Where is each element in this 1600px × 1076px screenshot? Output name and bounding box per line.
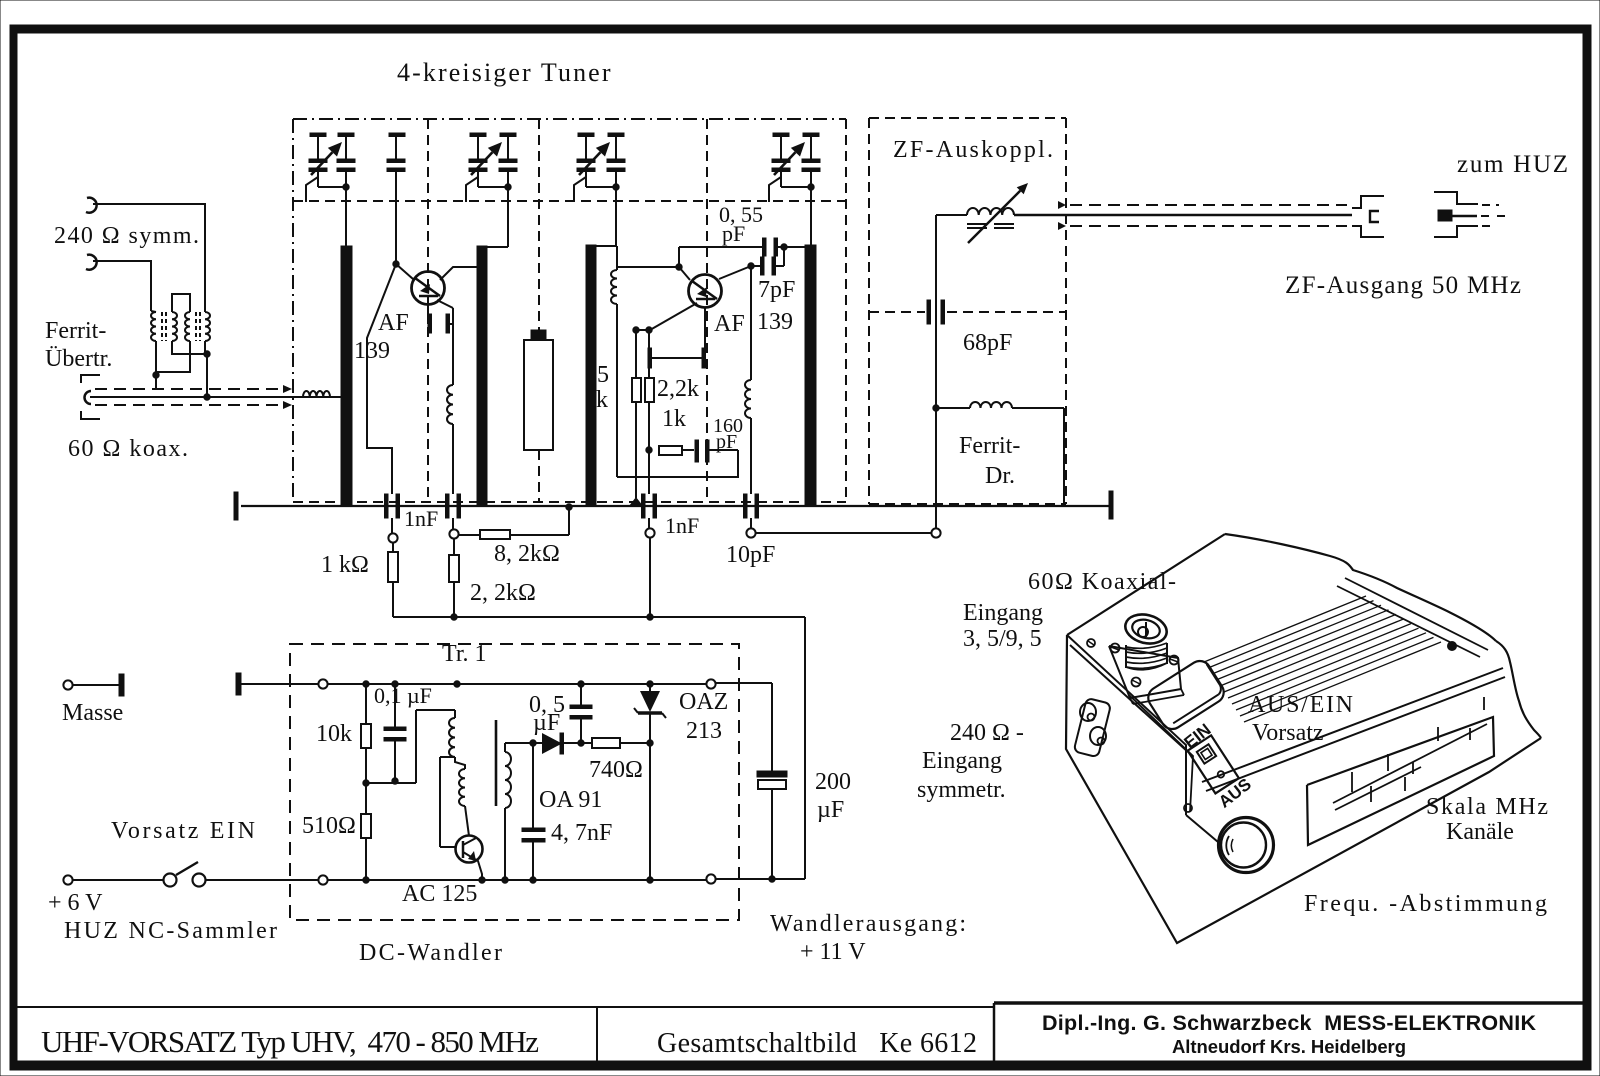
label 60 Ohm koax. [68,436,188,462]
svg-text:AC 125: AC 125 [402,881,477,907]
label ZF-Ausgang 50 MHz [1285,272,1521,299]
svg-text:Skala MHz: Skala MHz [1426,794,1548,820]
resistor 2,2 kOhm [449,539,459,617]
label 1k [662,406,686,432]
label 10pF [726,542,775,568]
label 68pF [963,330,1012,356]
svg-text:2,2k: 2,2k [657,376,699,402]
feedthrough capacitor 68 pF [869,300,1066,324]
terminal base bias [388,518,397,543]
svg-text:Vorsatz: Vorsatz [1252,720,1324,746]
resonator line 3 [586,245,596,506]
resonator line 4 [805,245,816,506]
svg-text:µF: µF [533,710,560,736]
svg-text:0,1 µF: 0,1 µF [374,683,432,708]
capacitor emitter Q2 [648,348,706,368]
svg-text:Ferrit-: Ferrit- [45,318,106,344]
terminal AGC [645,518,654,617]
svg-text:ZF-Ausgang 50 MHz: ZF-Ausgang 50 MHz [1285,272,1521,299]
wire [810,187,812,245]
title block [17,1003,1583,1061]
trimmer capacitor group 3 [574,133,625,202]
svg-text:139: 139 [757,309,793,335]
svg-text:Frequ. -Abstimmung: Frequ. -Abstimmung [1304,891,1547,917]
svg-text:5: 5 [597,362,609,388]
label DC-Wandler [359,940,502,966]
transformer Ferrit-Uebertr. [151,294,210,400]
label 0,5 uF [529,692,565,736]
connector 240 ohm input b [86,255,97,270]
feedthrough capacitor 1nF b [446,494,461,518]
terminal rail right [706,679,715,688]
svg-text:+ 11 V: + 11 V [800,939,866,965]
svg-text:1nF: 1nF [404,506,438,531]
node collector Q2 [748,263,754,269]
capacitor 0,55 pF [763,238,806,256]
resistor 10k [361,684,371,786]
wire [93,204,205,311]
capacitor emitter bypass Q1 [428,304,453,333]
label 5k [596,362,609,413]
label 240 Ohm symm. [54,223,199,249]
tuner partition dashed vertical 3 [706,119,708,502]
svg-text:AF: AF [714,311,745,337]
hatch streaks on lid [1204,596,1441,722]
svg-text:10k: 10k [316,721,352,747]
device pictorial drawing [1066,534,1541,943]
label 160 pF [713,415,743,453]
svg-text:Altneudorf Krs. Heidelberg: Altneudorf Krs. Heidelberg [1172,1036,1406,1057]
label 10k [316,721,352,747]
svg-text:240 Ω -: 240 Ω - [950,720,1024,746]
wire [345,187,347,246]
diode OA 91 [505,733,592,754]
feedthrough capacitor 1nF a [385,494,400,518]
svg-text:139: 139 [354,338,390,364]
wire top rail [328,681,706,687]
resistor 1k Q2 [645,330,654,494]
svg-text:Übertr.: Übertr. [45,346,112,372]
resistor 8,2 kOhm [459,504,572,539]
label 510 Ohm [302,813,356,839]
label zum HUZ [1457,151,1568,178]
label OAZ 213 [679,689,728,744]
ZF-Auskoppl shield box dashed [869,118,1066,504]
svg-text:2, 2kΩ: 2, 2kΩ [470,580,536,606]
wire [596,187,617,270]
label 7 pF [758,277,795,303]
scale window on device [1307,697,1494,845]
label 0,1 uF [374,683,432,708]
svg-text:k: k [596,387,608,413]
ground tick Q2 bias [629,497,643,506]
label 8,2 kOhm [494,541,560,567]
svg-text:4, 7nF: 4, 7nF [551,820,612,846]
label Ferrit-Dr. [959,433,1020,489]
svg-text:Eingang: Eingang [963,600,1043,626]
label 60 Ohm Koaxial- [1028,569,1176,595]
ground bus line [241,505,1113,507]
title text manufacturer [1042,1011,1536,1057]
terminal ZF box bottom [756,528,941,537]
ZF output line [1014,201,1352,230]
tuner partition dashed vertical 1 [427,119,429,502]
transformer Tr1 secondary [505,743,511,880]
svg-text:Dr.: Dr. [985,463,1015,489]
terminal +6V [63,875,163,884]
inductor collector choke Q2 [745,380,751,494]
connector 60 ohm koax input [81,375,100,419]
wire collector Q2 [719,266,751,380]
label 0,55 pF [719,202,763,246]
svg-text:200: 200 [815,769,851,795]
svg-text:1 kΩ: 1 kΩ [321,552,369,578]
svg-text:1nF: 1nF [665,513,699,538]
terminal emitter line [449,518,458,539]
svg-text:8, 2kΩ: 8, 2kΩ [494,541,560,567]
terminal Masse [63,674,124,696]
connector zum HUZ socket [1434,192,1507,237]
terminal rail left [318,679,327,688]
svg-text:240 Ω symm.: 240 Ω symm. [54,223,199,249]
ground tick supply rail [236,673,318,695]
label +6V [48,890,103,916]
capacitor fixed tuning 1 [387,133,405,264]
svg-text:213: 213 [686,718,722,744]
svg-text:3, 5/9, 5: 3, 5/9, 5 [963,626,1042,652]
capacitor 4,7 nF [522,743,545,880]
label 1nF c [665,513,699,538]
screw top left on device [1087,639,1095,647]
label Frequ.-Abstimmung [1304,891,1547,917]
label Vorsatz EIN [111,818,255,844]
label AC 125 [402,881,477,907]
transformer Tr1 core [495,720,498,806]
label OA 91 [539,787,602,813]
svg-text:symmetr.: symmetr. [917,777,1006,803]
wire base AC125 [440,757,456,847]
svg-text:UHF-VORSATZ Typ UHV, 470 - 85: UHF-VORSATZ Typ UHV, 470 - 850 MHz [41,1024,539,1059]
trimmer capacitor group 1 [306,133,355,202]
inductor emitter choke Q1 [447,385,453,494]
svg-text:4-kreisiger Tuner: 4-kreisiger Tuner [397,58,612,87]
wire bottom rail outside [716,876,805,882]
tuner partition dashed horizontal [293,200,846,202]
ground tick left [234,492,238,520]
cover plate on device [1144,657,1228,733]
wire [487,187,508,247]
svg-text:µF: µF [817,797,844,823]
resistor 510 Ohm [361,783,371,880]
svg-text:60Ω Koaxial-: 60Ω Koaxial- [1028,569,1176,595]
label Eingang 2 [922,748,1002,774]
wire converter output feed [804,617,806,879]
svg-text:pF: pF [716,431,737,453]
label 2,2 kOhm [470,580,536,606]
wire neutralization [679,247,762,267]
label symmetr. [917,777,1006,803]
svg-text:Ferrit-: Ferrit- [959,433,1020,459]
wire collector Q1 to line 2 [440,267,477,280]
svg-text:1k: 1k [662,406,686,432]
DC-Wandler box dashed [290,644,739,920]
dot on device lid [1448,642,1457,651]
resistor 2,2k Q2 [632,330,641,498]
feedthrough capacitor 10 pF [744,494,759,518]
input plate on device left face [1074,698,1112,757]
svg-text:ZF-Auskoppl.: ZF-Auskoppl. [893,137,1053,163]
svg-text:Tr. 1: Tr. 1 [442,641,486,667]
capacitor 160 pF [695,440,738,462]
label 200 uF [815,769,851,823]
svg-text:Kanäle: Kanäle [1446,819,1514,845]
label Skala MHz [1426,794,1548,820]
label 3,5/9,5 [963,626,1042,652]
svg-text:+ 6 V: + 6 V [48,890,103,916]
wire base bias Q1 [367,264,396,494]
switch EIN AUS on device [1188,735,1239,793]
label Ferrit-Uebertr. [45,318,112,372]
capacitor 0,1 uF [384,684,406,784]
svg-text:Wandlerausgang:: Wandlerausgang: [770,911,966,937]
svg-text:AUS/EIN: AUS/EIN [1248,692,1353,718]
capacitor 200 uF [716,683,787,879]
svg-text:Eingang: Eingang [922,748,1002,774]
label AUS on device [1215,775,1255,812]
label AF 139 Q2 [714,309,793,337]
label 1 kOhm [321,552,369,578]
transistor Q1 AF 139 [396,264,445,305]
wire emitter Q2 [633,303,705,348]
svg-text:AF: AF [378,310,409,336]
svg-text:OA 91: OA 91 [539,787,602,813]
svg-text:pF: pF [722,221,745,246]
tuner shield box dashed [293,119,846,502]
trimmer capacitor group 2 [466,133,517,202]
resonator line 2 [477,246,487,506]
label 740 Ohm [589,757,643,783]
tuner partition dashed vertical 2 [538,119,540,502]
trimmer capacitor group 4 [769,133,820,202]
label AF 139 Q1 [354,310,409,364]
label 240 Ohm - [950,720,1024,746]
label 4-kreisiger Tuner [397,58,612,87]
svg-text:Dipl.-Ing. G. Schwarzbeck MES: Dipl.-Ing. G. Schwarzbeck MESS-ELEKTRONI… [1042,1011,1536,1035]
title text UHF-VORSATZ [41,1024,539,1059]
label EIN on device [1181,720,1215,752]
resistor 1 kOhm [388,543,398,617]
wire bias to transformer [366,710,455,783]
wire base Q2 [618,264,690,280]
svg-text:DC-Wandler: DC-Wandler [359,940,502,966]
feedthrough filter middle [524,330,553,450]
coax line to tuner [90,385,341,409]
node base Q1 [393,261,399,267]
wire [93,261,151,311]
svg-text:510Ω: 510Ω [302,813,356,839]
svg-text:7pF: 7pF [758,277,795,303]
resistor 740 Ohm [592,738,653,748]
wire supply rail tuner [393,614,805,620]
zener diode OAZ 213 [634,684,666,883]
transformer Tr1 primary [449,710,469,836]
knob Frequ-Abstimmung [1219,818,1274,873]
capacitor 7 pF [751,247,784,275]
resistor 5k line [611,270,738,477]
svg-text:Masse: Masse [62,700,123,726]
feedthrough capacitor 1nF c [642,494,657,518]
label Kanaele [1446,819,1514,845]
terminal bottom rail right [706,874,715,883]
inductor input coupling [303,391,330,397]
transistor Q2 AF 139 [689,275,722,308]
label Wandlerausgang [770,911,966,965]
transistor AC 125 [456,836,483,881]
wire bottom rail [328,877,706,883]
connector ZF output plug [1352,196,1384,237]
label Tr. 1 [442,641,486,667]
inductor Ferrit-Dr. [936,402,1064,504]
wire emitter Q1 [437,300,453,385]
ground tick right [1109,491,1113,519]
connector N socket on device [1109,610,1184,704]
title text Gesamtschaltbild Ke 6612 [657,1028,977,1059]
connector 240 ohm input a [86,198,97,213]
svg-text:10pF: 10pF [726,542,775,568]
wire ZF vertical [933,215,939,528]
svg-text:OAZ: OAZ [679,689,728,715]
svg-text:Vorsatz EIN: Vorsatz EIN [111,818,255,844]
label AUS/EIN [1248,692,1353,718]
variable inductor ZF [936,183,1028,243]
label Eingang 1 [963,600,1043,626]
svg-text:740Ω: 740Ω [589,757,643,783]
label Masse [62,700,123,726]
resonator line 1 [341,246,352,506]
svg-text:68pF: 68pF [963,330,1012,356]
terminal ZF output tap [746,518,755,538]
label 1nF a [404,506,438,531]
terminal bottom rail left [318,875,327,884]
label HUZ NC-Sammler [64,918,277,944]
screw bottom on device [1184,804,1192,812]
switch Vorsatz EIN [164,862,319,887]
label ZF-Auskoppl. [893,137,1053,163]
svg-text:Gesamtschaltbild Ke 6612: Gesamtschaltbild Ke 6612 [657,1028,977,1059]
label 4,7 nF [551,820,612,846]
capacitor 0,5 uF [570,684,592,743]
resistor damping 160pF row [659,446,694,455]
label 2,2k [657,376,699,402]
label Vorsatz [1252,720,1324,746]
